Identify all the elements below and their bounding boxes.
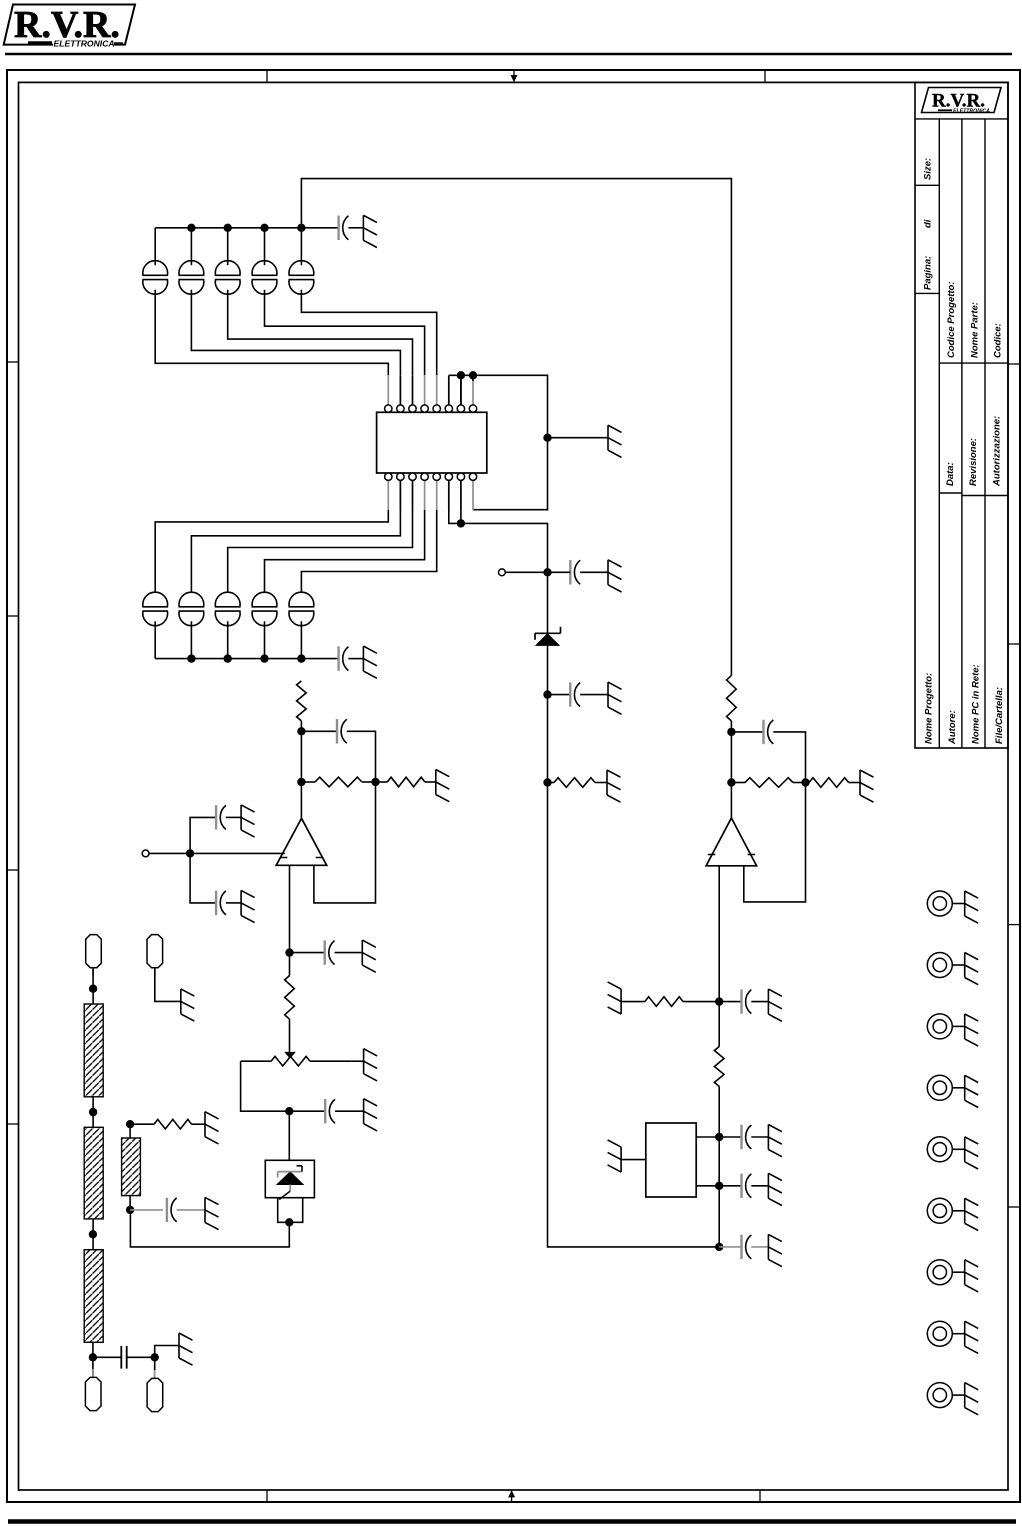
svg-text:Autorizzazione:: Autorizzazione: <box>992 416 1003 487</box>
zener diode D1 <box>536 634 559 646</box>
wire <box>154 228 156 265</box>
junction <box>543 690 551 698</box>
mounting hole pad M2 <box>927 953 952 978</box>
wire <box>290 952 325 954</box>
wire <box>154 1357 156 1379</box>
capacitor C21 (electrolytic) <box>143 592 168 607</box>
mounting hole pad M1 <box>927 891 952 916</box>
wire <box>190 817 216 853</box>
junction <box>371 778 379 786</box>
wire bus to right rail <box>301 179 731 676</box>
junction <box>285 1107 293 1115</box>
right border tick <box>1008 924 1020 926</box>
IC U3 body <box>646 1123 696 1197</box>
IC U1 top pin 8 <box>472 375 474 405</box>
wire (U5 legs) <box>278 1198 303 1223</box>
wire <box>93 1356 121 1358</box>
wire <box>264 621 266 658</box>
wire <box>129 1124 131 1138</box>
wire <box>348 658 363 660</box>
junction <box>89 1353 97 1361</box>
wire <box>718 1086 720 1185</box>
junction <box>89 1108 97 1116</box>
wire net cap-to-pin2 <box>191 290 400 376</box>
capacitor C22 (electrolytic) <box>179 592 204 607</box>
ground <box>620 989 622 1014</box>
junction <box>297 654 305 662</box>
wire pin8 top <box>472 375 474 381</box>
page bottom rule <box>8 1519 1016 1524</box>
resistor R5 <box>645 997 683 1007</box>
junction <box>187 654 195 662</box>
wire net pin-to-cap1 <box>155 510 388 597</box>
capacitor C34 (polarized) <box>740 1125 742 1149</box>
wire <box>348 227 363 229</box>
shielded cable segment W2 <box>84 1127 103 1219</box>
junction <box>801 778 809 786</box>
capacitor C36 (polarized) <box>740 1235 742 1259</box>
connector pin J4 <box>147 1378 163 1411</box>
wire <box>505 571 547 573</box>
wire <box>548 437 609 439</box>
junction <box>89 1230 97 1238</box>
IC U1 top pin 2 <box>399 375 401 405</box>
svg-text:File/Cartella:: File/Cartella: <box>994 687 1005 744</box>
wire net B (pins 6,7 bottom) <box>449 510 719 1247</box>
ground <box>767 1234 769 1259</box>
IC U1 bottom pin 13 <box>424 480 426 510</box>
shielded cable segment W4 <box>122 1138 141 1196</box>
wire <box>335 952 363 954</box>
ground (mounting hole M2) <box>964 953 966 978</box>
wire <box>580 571 608 573</box>
capacitor C13 (electrolytic) <box>215 261 240 276</box>
wire <box>288 1111 290 1160</box>
ground <box>363 1049 365 1074</box>
wire <box>92 1097 94 1128</box>
top border tick <box>764 70 766 82</box>
wire <box>548 782 555 784</box>
wire <box>751 1185 768 1187</box>
junction <box>457 371 465 379</box>
capacitor C30 (polarized) <box>569 560 571 584</box>
ground (mounting hole M4) <box>964 1075 966 1100</box>
svg-text:Codice:: Codice: <box>993 323 1004 358</box>
svg-text:Nome Progetto:: Nome Progetto: <box>924 673 935 744</box>
junction <box>543 434 551 442</box>
svg-text:Nome Parte:: Nome Parte: <box>970 302 981 358</box>
ground <box>178 1333 180 1358</box>
svg-text:Size:: Size: <box>923 158 934 180</box>
wire <box>310 1060 351 1062</box>
junction <box>260 654 268 662</box>
ground <box>363 1099 365 1124</box>
wire <box>773 732 805 783</box>
ground <box>240 890 242 915</box>
right border tick <box>1008 363 1020 365</box>
right border tick <box>1008 1206 1020 1208</box>
wire <box>241 1060 272 1062</box>
connector pin J1 <box>86 935 102 968</box>
page top rule <box>5 53 1012 55</box>
wire (U2 inverting input) <box>744 783 806 902</box>
wire <box>425 781 436 783</box>
shielded cable segment W3 <box>84 1250 103 1343</box>
resistor R7 <box>297 681 307 721</box>
svg-text:ELETTRONICA: ELETTRONICA <box>54 38 115 48</box>
IC U1 top pin 4 <box>424 375 426 405</box>
capacitor C33 (polarized) <box>740 989 742 1013</box>
svg-text:Autore:: Autore: <box>947 710 958 745</box>
potentiometer RV1 wiper arrow <box>284 1052 296 1059</box>
wire <box>92 1342 94 1378</box>
wire <box>731 782 745 784</box>
wire <box>580 694 608 696</box>
wire <box>730 721 732 818</box>
wire (U3 left pin) <box>621 1159 646 1161</box>
ground <box>240 805 242 830</box>
svg-text:Pagina:: Pagina: <box>923 256 934 290</box>
ground <box>767 1173 769 1198</box>
IC U1 top pin 6 <box>448 375 450 405</box>
wire <box>227 228 229 265</box>
IC U1 bottom pin 11 <box>448 480 450 510</box>
capacitor C40 (polarized) <box>336 719 338 743</box>
capacitor C45 (polarized) <box>166 1198 168 1222</box>
junction <box>224 654 232 662</box>
junction <box>187 224 195 232</box>
junction <box>715 997 723 1005</box>
wire (pin stub) <box>154 1370 156 1379</box>
wire <box>362 781 376 783</box>
ground <box>435 770 437 795</box>
ground <box>607 560 609 585</box>
port terminal P1 <box>499 569 506 576</box>
wire <box>351 1060 364 1062</box>
IC U1 bottom pin 14 <box>412 480 414 510</box>
wire <box>155 968 181 1002</box>
bottom border tick <box>759 1490 761 1502</box>
connector pin J3 <box>85 1377 101 1410</box>
wire (pin stub) <box>92 968 94 976</box>
resistor R9 <box>387 777 425 787</box>
wire <box>301 730 337 732</box>
ground <box>859 770 861 795</box>
wire <box>227 621 229 658</box>
IC U1 bottom pin 16 <box>387 480 389 510</box>
wire <box>300 721 302 818</box>
IC U1 body <box>377 412 487 473</box>
capacitor C43 (polarized) <box>324 940 326 964</box>
mounting hole pad M7 <box>927 1260 952 1285</box>
wire <box>92 1219 94 1250</box>
IC U1 top pin 7 <box>460 375 462 405</box>
svg-text:Data:: Data: <box>945 462 956 486</box>
ground (mounting hole M1) <box>964 891 966 916</box>
ground (mounting hole M3) <box>964 1014 966 1039</box>
capacitor C46 <box>120 1346 122 1369</box>
wire <box>130 1209 163 1211</box>
top center arrow mark <box>513 70 515 78</box>
ground <box>204 1112 206 1137</box>
capacitor C25 (electrolytic) <box>289 592 314 607</box>
connector pin J2 <box>147 935 163 968</box>
ground (mounting hole M5) <box>964 1137 966 1162</box>
wire <box>289 1019 291 1052</box>
wire bottom bus <box>155 658 301 660</box>
title block grid <box>915 82 1008 748</box>
wire <box>190 853 216 903</box>
wire <box>719 1136 741 1138</box>
resistor R4 <box>809 778 849 788</box>
wire <box>300 228 302 265</box>
wire <box>621 1001 645 1003</box>
wire <box>226 902 241 904</box>
IC U1 top pin 1 <box>387 375 389 405</box>
wire <box>719 1001 741 1003</box>
mounting hole pad M8 <box>927 1321 952 1346</box>
IC U1 bottom pin 15 <box>399 480 401 510</box>
wire <box>300 621 302 658</box>
junction <box>126 1206 134 1214</box>
wire <box>129 1196 131 1210</box>
resistor R11 <box>154 1119 192 1129</box>
wire <box>849 782 860 784</box>
junction <box>715 1243 723 1251</box>
wire (pin stub) <box>92 1369 94 1378</box>
wire <box>190 621 192 658</box>
left border tick <box>7 869 19 871</box>
wire (pot left leg) <box>241 1061 290 1111</box>
capacitor C42 (polarized) <box>215 891 217 915</box>
svg-text:Nome PC in Rete:: Nome PC in Rete: <box>971 664 982 744</box>
capacitor C23 (electrolytic) <box>215 592 240 607</box>
junction <box>151 1353 159 1361</box>
capacitor C35 (polarized) <box>740 1174 742 1198</box>
ground <box>204 1197 206 1222</box>
wire <box>731 731 763 733</box>
bottom center arrow mark <box>511 1494 513 1502</box>
wire <box>548 571 571 573</box>
wire (U3 out pin) <box>696 1136 719 1138</box>
wire <box>155 1346 179 1358</box>
wire <box>718 1186 720 1247</box>
mounting hole pad M3 <box>927 1014 952 1039</box>
left border tick <box>7 361 19 363</box>
shielded cable segment W1 <box>84 1004 103 1097</box>
capacitor C24 (electrolytic) <box>252 592 277 607</box>
junction <box>126 1120 134 1128</box>
shunt reference U5 (boxed zener) <box>265 1160 314 1197</box>
resistor R1 <box>554 778 595 788</box>
capacitor C44 (polarized) <box>324 1099 326 1123</box>
wire <box>376 781 388 783</box>
junction <box>727 728 735 736</box>
wire net pin-to-cap3 <box>228 510 413 597</box>
capacitor C26 (polarized) <box>337 646 339 670</box>
IC U1 top pin 3 <box>412 375 414 405</box>
left border tick <box>7 615 19 617</box>
wire pin7 top <box>460 375 462 405</box>
wire <box>347 731 376 782</box>
wire <box>127 1356 155 1358</box>
wire <box>289 1110 325 1112</box>
right border tick <box>1008 643 1020 645</box>
op-amp U4 <box>276 818 327 865</box>
wire net pin-to-cap2 <box>191 510 400 597</box>
wire <box>751 1246 768 1248</box>
wire <box>719 1246 741 1248</box>
junction <box>260 224 268 232</box>
junction <box>186 849 194 857</box>
junction <box>457 519 465 527</box>
junction <box>715 1133 723 1141</box>
wire <box>301 227 338 229</box>
wire <box>192 1123 205 1125</box>
wire (U4 feedback) <box>314 782 376 903</box>
wire <box>226 816 241 818</box>
junction <box>89 985 97 993</box>
ground <box>767 1125 769 1150</box>
wire net cap-to-pin4 <box>265 290 425 376</box>
wire net cap-to-pin3 <box>228 290 413 376</box>
ground (mounting hole M7) <box>964 1260 966 1285</box>
ground (mounting hole M9) <box>964 1383 966 1408</box>
ground <box>606 770 608 795</box>
wire <box>92 968 94 1004</box>
wire <box>793 782 806 784</box>
mounting hole pad M9 <box>927 1383 952 1408</box>
svg-text:ELETTRONICA: ELETTRONICA <box>953 109 990 115</box>
capacitor C16 (polarized) <box>337 216 339 240</box>
wire <box>751 1001 768 1003</box>
wire <box>595 782 607 784</box>
resistor R2 <box>727 675 737 721</box>
junction <box>543 778 551 786</box>
ground (mounting hole M6) <box>964 1198 966 1223</box>
svg-text:di: di <box>923 219 934 228</box>
wire pin7 bottom <box>460 510 462 523</box>
wire <box>130 1210 289 1247</box>
capacitor C15 (electrolytic) <box>289 261 314 276</box>
wire net cap-to-pin1 <box>155 290 388 376</box>
resistor R8 <box>315 777 362 787</box>
ground <box>607 682 609 707</box>
ground <box>767 989 769 1014</box>
port terminal P2 <box>142 850 149 857</box>
capacitor C32 (polarized) <box>762 720 764 744</box>
wire <box>190 228 192 265</box>
capacitor C41 (polarized) <box>215 805 217 829</box>
wire <box>130 1123 154 1125</box>
ground <box>607 425 609 450</box>
wire <box>683 1001 719 1003</box>
mounting hole pad M6 <box>927 1198 952 1223</box>
RVR logo (title block) <box>922 88 1002 113</box>
mounting hole pad M5 <box>927 1137 952 1162</box>
junction <box>297 224 305 232</box>
resistor R3 <box>745 778 793 788</box>
wire <box>177 1209 205 1211</box>
svg-text:Revisione:: Revisione: <box>968 438 979 486</box>
ground <box>362 215 364 240</box>
junction <box>297 727 305 735</box>
op-amp U2 <box>706 818 757 866</box>
mounting hole pad M4 <box>927 1075 952 1100</box>
wire <box>335 1110 364 1112</box>
wire <box>548 694 571 696</box>
resistor R10 <box>285 976 295 1020</box>
top border tick <box>266 70 268 82</box>
wire <box>719 1185 741 1187</box>
junction <box>285 948 293 956</box>
wire (U2 non-inv input) <box>718 866 720 1002</box>
IC U1 bottom pin 9 <box>472 480 474 510</box>
wire <box>301 658 338 660</box>
junction <box>285 1218 293 1226</box>
left border tick <box>7 1123 19 1125</box>
junction <box>469 371 477 379</box>
wire <box>264 228 266 265</box>
capacitor C14 (electrolytic) <box>252 261 277 276</box>
junction <box>727 778 735 786</box>
wire (U4 non-inv input) <box>289 865 291 975</box>
wire net cap-to-pin5 <box>301 290 436 376</box>
junction <box>297 778 305 786</box>
potentiometer RV1 <box>271 1056 310 1066</box>
wire (U4 input) <box>149 852 285 854</box>
wire <box>696 1185 719 1187</box>
wire <box>301 781 315 783</box>
IC U1 top pin 5 <box>436 375 438 405</box>
wire net pin-to-cap4 <box>265 510 425 597</box>
wire net pin-to-cap5 <box>301 510 436 597</box>
wire <box>154 621 156 658</box>
wire (pin stub) <box>154 968 156 976</box>
wire <box>751 1136 768 1138</box>
IC U1 bottom pin 12 <box>436 480 438 510</box>
ground (mounting hole M8) <box>964 1321 966 1346</box>
ground <box>361 940 363 965</box>
wire <box>718 1002 720 1047</box>
junction <box>543 568 551 576</box>
junction <box>224 224 232 232</box>
ground <box>620 1147 622 1172</box>
wire top supply bus <box>155 227 301 229</box>
RVR Elettronica logo (top-left) <box>4 5 135 45</box>
bottom border tick <box>266 1490 268 1502</box>
ground <box>362 646 364 671</box>
wire net A (pins 6-8 top) <box>449 375 548 509</box>
resistor R6 <box>714 1047 724 1087</box>
ground <box>180 989 182 1014</box>
junction <box>715 1182 723 1190</box>
capacitor C12 (electrolytic) <box>179 261 204 276</box>
IC U1 bottom pin 10 <box>460 480 462 510</box>
capacitor C11 (electrolytic) <box>143 261 168 276</box>
capacitor C31 (polarized) <box>569 682 571 706</box>
svg-text:Codice Progetto:: Codice Progetto: <box>946 281 957 358</box>
